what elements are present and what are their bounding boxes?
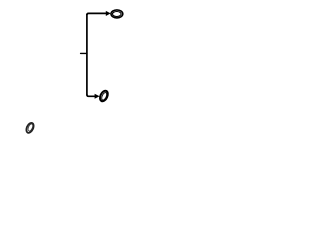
arrowhead bottom — [95, 94, 100, 99]
wire vertical trunk — [86, 14, 88, 96]
wire top branch — [87, 13, 106, 15]
wire bottom branch — [87, 95, 95, 97]
node N3 outer ellipse (bottom left, tilted) — [25, 122, 35, 134]
node N1 outer ellipse (top right) — [111, 10, 123, 18]
node N3 inner ellipse — [27, 123, 34, 131]
arrowhead top — [106, 11, 111, 16]
node N1 inner ellipse — [113, 12, 122, 17]
node N2 inner ellipse — [101, 92, 108, 101]
tick on trunk — [81, 52, 87, 54]
node N2 outer ellipse (bottom right, tilted) — [98, 89, 109, 102]
